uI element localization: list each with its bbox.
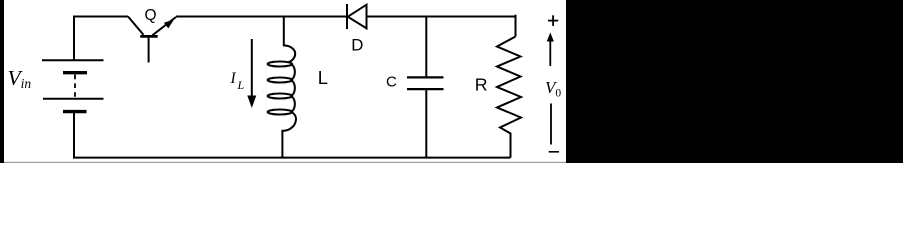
svg-text:L: L bbox=[318, 67, 328, 88]
svg-text:C: C bbox=[386, 73, 397, 90]
svg-text:R: R bbox=[475, 75, 488, 95]
svg-text:D: D bbox=[351, 36, 363, 55]
svg-text:Q: Q bbox=[145, 7, 157, 24]
